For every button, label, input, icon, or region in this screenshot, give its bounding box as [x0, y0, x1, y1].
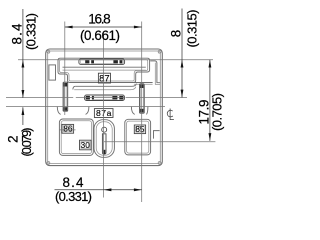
dimension 8.4 bottom line — [55, 189, 142, 191]
vertical centerline main — [103, 33, 105, 198]
dimension 8.4 bottom right arrow — [134, 188, 142, 191]
corner circle top-left — [47, 50, 50, 53]
dimension 8 bottom arrow — [181, 90, 184, 98]
left cell inner — [61, 121, 91, 154]
centre-line symbol — [167, 109, 174, 120]
top slot outer — [79, 59, 125, 65]
line through 86 — [59, 129, 75, 131]
dimension 16.8 line — [65, 26, 142, 28]
svg-text:(0.315): (0.315) — [184, 10, 199, 48]
left vertical slot inner — [64, 83, 67, 110]
dimension 8.4 left bottom arrow — [22, 90, 25, 98]
svg-text:(0.661): (0.661) — [80, 28, 120, 43]
horizontal extension line top slot — [18, 59, 213, 61]
vertical extension line left pin — [64, 22, 66, 116]
dimension 17.9 top arrow — [209, 60, 212, 68]
pin 87a blade right half — [112, 96, 123, 99]
dimension 17.9 bottom arrow — [209, 133, 212, 141]
dimension 8.4 left top arrow — [22, 60, 25, 68]
top tray outer contour — [58, 58, 150, 82]
middle slot inner — [86, 96, 124, 99]
socket box 30 inner — [81, 142, 90, 149]
rivet circle pin 30 — [102, 127, 107, 132]
dimension 17.9 line — [209, 60, 211, 141]
label box 87 — [98, 73, 110, 83]
top slot inner — [81, 60, 124, 64]
dimension 2 arrow — [22, 107, 25, 115]
center stadium outer — [94, 120, 114, 158]
dimension 8.4 bottom left arrow — [104, 188, 112, 191]
svg-text:85: 85 — [135, 125, 145, 134]
relay body outer outline — [46, 49, 163, 166]
dimension 8 line — [181, 9, 183, 98]
right vertical slot outer — [140, 84, 145, 113]
dimension 2 line — [22, 107, 24, 125]
vertical extension line right pin — [141, 22, 143, 203]
horizontal extension line middle slot — [6, 97, 187, 99]
left cell neck — [57, 107, 60, 115]
top tray inner contour — [60, 60, 148, 81]
svg-text:30: 30 — [81, 141, 91, 150]
svg-text:86: 86 — [63, 125, 73, 134]
horizontal extension line lower datum — [6, 106, 165, 108]
svg-text:(0.331): (0.331) — [55, 189, 92, 204]
pin 87 blade right half — [113, 60, 122, 63]
svg-text:(0.331): (0.331) — [23, 13, 38, 50]
dimension 16.8 right arrow — [134, 26, 142, 29]
left slot bottom tick — [64, 107, 67, 111]
socket box 30 outer — [80, 140, 92, 150]
left cell outer — [59, 119, 93, 155]
dimension 8.4 left line — [22, 9, 24, 98]
svg-text:2: 2 — [5, 135, 20, 142]
pin 87a blade left half — [86, 96, 94, 99]
label box 87a — [94, 109, 113, 118]
right cell inner — [127, 121, 149, 153]
right cell outer — [125, 119, 151, 155]
left vertical slot outer — [63, 82, 68, 111]
right slot bottom tick — [140, 109, 143, 113]
svg-text:8: 8 — [169, 30, 184, 37]
left slot top tick — [64, 83, 67, 87]
socket box 86 inner — [63, 126, 72, 132]
svg-text:(0.079): (0.079) — [20, 128, 34, 157]
svg-text:8.4: 8.4 — [10, 23, 25, 45]
dimension 8 top arrow — [181, 60, 184, 68]
right slot top tick — [140, 84, 143, 88]
right vertical slot inner — [141, 85, 144, 112]
socket box 85 inner — [136, 126, 145, 132]
dimension 16.8 left arrow — [65, 26, 73, 29]
socket box 86 outer — [62, 124, 74, 133]
horizontal extension line pin30 level — [104, 141, 215, 143]
svg-text:(0.705): (0.705) — [209, 93, 224, 131]
tray floor double line — [63, 66, 146, 68]
right edge notch lower — [154, 131, 160, 139]
middle band upper double line — [73, 86, 75, 89]
relay body inner outline — [48, 51, 161, 164]
pin 30 tick — [103, 150, 105, 154]
svg-text:16.8: 16.8 — [88, 12, 110, 27]
socket box 85 outer — [134, 125, 145, 134]
pin 30 slot — [102, 134, 106, 154]
corner circle top-right — [158, 50, 161, 53]
corner circle bottom-right — [158, 162, 161, 165]
left edge tab — [49, 65, 56, 80]
center stadium inner — [96, 122, 112, 155]
middle slot outer — [85, 95, 125, 101]
corner circle bottom-left — [47, 162, 50, 165]
svg-text:87: 87 — [99, 72, 109, 83]
right cell neck — [131, 107, 134, 115]
right edge notch upper — [150, 61, 160, 83]
pin 87 blade left half — [85, 60, 94, 63]
